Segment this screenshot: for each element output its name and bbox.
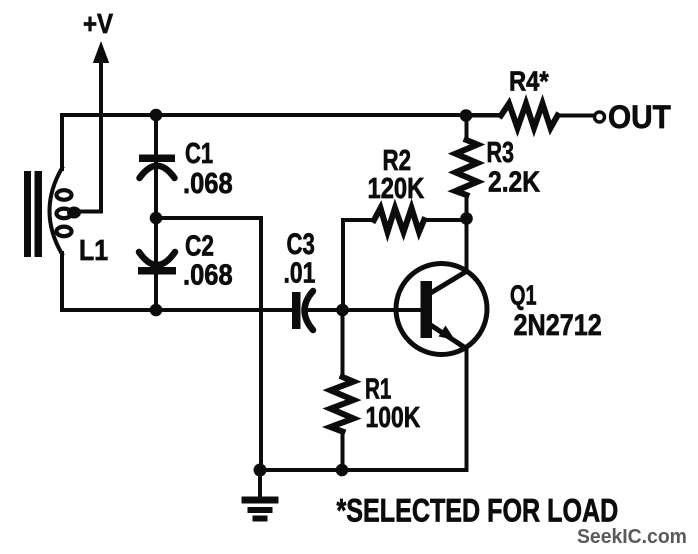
wire: left vertical from top rail to L1 [60, 115, 64, 169]
svg-text:2.2K: 2.2K [488, 166, 541, 198]
svg-text:OUT: OUT [608, 99, 671, 135]
svg-text:120K: 120K [368, 172, 425, 205]
transistor Q1 [396, 264, 487, 355]
svg-text:*SELECTED FOR LOAD: *SELECTED FOR LOAD [337, 494, 619, 530]
svg-text:Q1: Q1 [510, 280, 537, 311]
wire: C1/C2 midpoint to ground rail (crossover) [156, 218, 261, 470]
wire: ground rail [260, 468, 467, 472]
wire: R2 left lead down to base node [341, 220, 345, 310]
junction dot: R1 bottom [336, 464, 349, 477]
svg-text:R3: R3 [487, 137, 514, 169]
junction dot: top rail / C1 [150, 109, 163, 122]
junction dot: C2 bottom / base rail [150, 304, 163, 317]
resistor R4 [466, 104, 558, 129]
resistor R2 [343, 208, 466, 232]
svg-text:R4*: R4* [509, 65, 549, 97]
power arrow +V [93, 41, 109, 63]
wire: top supply rail [62, 113, 501, 117]
junction dot: C1/C2 midpoint [150, 212, 163, 225]
junction dot: top rail / R3 / R4 [460, 109, 473, 122]
resistor R1 [331, 310, 354, 470]
svg-text:.01: .01 [284, 256, 316, 289]
svg-text:100K: 100K [366, 400, 421, 433]
ground [242, 470, 279, 522]
resistor R3 [456, 116, 478, 219]
wire: collector vertical [465, 219, 469, 273]
inductor L1 core bars [24, 171, 42, 257]
output terminal circle [595, 112, 605, 122]
capacitor C3 [292, 291, 313, 330]
wire: L1 bottom to base rail corner [62, 253, 292, 310]
wire: emitter vertical down to ground rail [465, 347, 469, 470]
wire: C3 to Q1 base [306, 308, 421, 312]
svg-text:SeekIC.com: SeekIC.com [577, 526, 687, 548]
svg-text:.068: .068 [183, 166, 233, 199]
junction dot: ground rail left end [254, 464, 267, 477]
junction dot: base node [336, 304, 349, 317]
svg-text:C1: C1 [185, 138, 213, 170]
wire: R4 output to terminal [558, 114, 595, 118]
inductor L1 [50, 168, 72, 254]
junction dot: R2/R3/collector node [460, 212, 473, 225]
junction: L1 tap dot [67, 207, 81, 219]
svg-text:2N2712: 2N2712 [514, 308, 602, 342]
capacitor C1 [139, 155, 175, 179]
capacitor C2 [138, 252, 176, 275]
svg-text:.068: .068 [183, 258, 233, 291]
wire: +V line down to L1 tap [78, 60, 101, 212]
svg-text:L1: L1 [79, 234, 108, 266]
svg-text:+V: +V [83, 7, 114, 39]
wire: C1/C2 vertical stack [154, 115, 158, 310]
